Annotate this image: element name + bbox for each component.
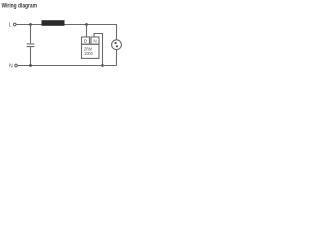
lamp electrode dot lower <box>116 45 118 47</box>
terminal N <box>15 64 18 67</box>
ignitor terminal D box <box>82 37 90 44</box>
capacitor C top lead wire <box>30 25 32 44</box>
junction capacitor top <box>29 23 32 26</box>
svg-text:N: N <box>93 38 96 43</box>
capacitor C plates <box>27 44 35 47</box>
wire L to ballast <box>16 24 42 26</box>
ballast (choke) solid block <box>42 20 65 26</box>
wire ballast to lamp (top rail with corner down) <box>65 25 117 40</box>
svg-text:Wiring diagram: Wiring diagram <box>2 2 38 9</box>
svg-text:L: L <box>9 23 12 29</box>
wire N terminal over-route to neutral <box>94 34 103 66</box>
lamp LP1 circle <box>112 40 122 50</box>
capacitor C bottom lead wire <box>30 47 32 65</box>
svg-text:1000: 1000 <box>84 51 93 56</box>
ignitor terminal N box <box>91 37 99 44</box>
svg-text:N: N <box>9 64 13 70</box>
ignitor U1 body <box>82 44 100 58</box>
junction capacitor bottom <box>29 64 32 67</box>
lamp electrode dot upper <box>115 42 117 44</box>
neutral rail wire <box>17 65 116 67</box>
wire lamp bottom to neutral rail <box>116 50 118 66</box>
terminal L <box>13 23 16 26</box>
wire tap to D terminal <box>86 25 88 38</box>
junction at neutral rail <box>101 64 104 67</box>
junction ignitor D tap <box>85 23 88 26</box>
